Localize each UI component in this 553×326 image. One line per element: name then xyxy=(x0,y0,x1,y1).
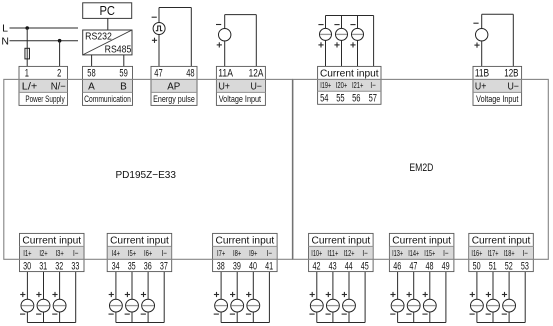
current transformer I16 xyxy=(470,292,484,314)
wire CT I6 connections xyxy=(147,272,149,323)
svg-text:L/+: L/+ xyxy=(22,82,38,93)
wire voltage input B loop xyxy=(482,14,514,66)
wire CT I16 connections xyxy=(476,272,478,323)
svg-text:U+: U+ xyxy=(218,82,230,93)
wire CT I8 connections xyxy=(236,272,238,323)
current transformer I11 xyxy=(326,292,340,314)
svg-text:Current input: Current input xyxy=(472,235,531,247)
wire CT I20 connections xyxy=(341,16,343,67)
svg-text:12B: 12B xyxy=(504,68,518,80)
terminal block Communication (58,59) xyxy=(83,66,133,105)
pulse counter symbol xyxy=(152,17,166,43)
svg-text:37: 37 xyxy=(160,260,168,272)
svg-text:N: N xyxy=(1,35,9,47)
wire CT I15 connections xyxy=(429,272,431,323)
svg-text:Current input: Current input xyxy=(110,235,169,247)
svg-text:I8+: I8+ xyxy=(233,248,241,258)
terminal block Current input (42-45) xyxy=(309,233,374,272)
svg-text:58: 58 xyxy=(87,68,95,80)
current transformer I7 xyxy=(214,292,228,314)
svg-text:I18+: I18+ xyxy=(504,248,515,258)
svg-text:I16+: I16+ xyxy=(471,248,482,258)
wire N line xyxy=(10,40,79,42)
svg-text:PC: PC xyxy=(99,4,115,18)
current transformer I15 xyxy=(422,292,436,314)
terminal block Voltage Input (11A,12A) xyxy=(216,66,265,105)
svg-text:AP: AP xyxy=(167,82,180,93)
svg-text:55: 55 xyxy=(336,93,344,105)
svg-text:I1+: I1+ xyxy=(23,248,31,258)
svg-text:41: 41 xyxy=(265,260,273,272)
svg-text:40: 40 xyxy=(249,260,257,272)
svg-text:I13+: I13+ xyxy=(392,248,403,258)
current transformer I14 xyxy=(406,292,420,314)
wire converter B to terminal 59 xyxy=(123,55,125,67)
wire CT I18 connections xyxy=(508,272,510,323)
svg-text:54: 54 xyxy=(320,93,328,105)
svg-text:I21+: I21+ xyxy=(352,80,364,90)
svg-text:B: B xyxy=(120,82,127,93)
terminal block Current input (34-37) xyxy=(107,233,172,272)
svg-text:I15+: I15+ xyxy=(424,248,435,258)
svg-text:Communication: Communication xyxy=(84,94,131,104)
svg-text:Energy pulse: Energy pulse xyxy=(153,94,195,104)
wire CT I3 connections xyxy=(59,272,61,323)
svg-text:Voltage Input: Voltage Input xyxy=(476,94,519,104)
svg-text:I10+: I10+ xyxy=(311,248,322,258)
svg-text:Current input: Current input xyxy=(392,235,451,247)
current transformer I9 xyxy=(246,292,260,314)
svg-text:49: 49 xyxy=(442,260,450,272)
svg-text:43: 43 xyxy=(329,260,337,272)
svg-text:31: 31 xyxy=(39,260,47,272)
terminal block Power Supply (1,2) xyxy=(19,66,68,105)
svg-text:I6+: I6+ xyxy=(144,248,152,258)
wire CT I9 connections xyxy=(252,272,254,323)
current transformer I1 xyxy=(20,292,34,314)
svg-text:I7+: I7+ xyxy=(217,248,225,258)
svg-text:57: 57 xyxy=(369,93,377,105)
meter case EM2D xyxy=(293,79,548,259)
node L junction xyxy=(25,26,29,30)
current transformer I13 xyxy=(390,292,404,314)
wire CT I2 connections xyxy=(43,272,45,323)
svg-text:1: 1 xyxy=(25,68,29,80)
svg-text:Current input: Current input xyxy=(320,67,379,79)
svg-text:53: 53 xyxy=(521,260,529,272)
wire CT I11 connections xyxy=(332,272,334,323)
svg-text:52: 52 xyxy=(505,260,513,272)
svg-text:I−: I− xyxy=(370,80,376,90)
svg-text:RS232: RS232 xyxy=(85,32,112,43)
wire CT I7 connections xyxy=(220,272,222,323)
svg-text:I14+: I14+ xyxy=(408,248,419,258)
svg-text:L: L xyxy=(2,22,8,34)
terminal block Current input (30-33) xyxy=(20,233,85,272)
wire CT I14 connections xyxy=(413,272,415,323)
svg-text:32: 32 xyxy=(55,260,63,272)
terminal block Current input (46-49) xyxy=(389,233,454,272)
svg-text:I−: I− xyxy=(362,248,368,258)
svg-text:RS485: RS485 xyxy=(105,44,132,55)
svg-text:12A: 12A xyxy=(249,68,264,80)
wire CT I1 connections xyxy=(26,272,28,323)
wire CT I5 connections xyxy=(131,272,133,323)
svg-text:I12+: I12+ xyxy=(344,248,355,258)
wire CT I12 connections xyxy=(348,272,350,323)
svg-text:48: 48 xyxy=(186,68,194,80)
svg-text:I20+: I20+ xyxy=(336,80,348,90)
svg-text:A: A xyxy=(88,82,95,93)
svg-text:N/−: N/− xyxy=(51,82,66,93)
wire fuse to terminal 1 xyxy=(26,59,28,67)
svg-text:11A: 11A xyxy=(218,68,233,80)
node N junction xyxy=(58,39,62,43)
wire PC to converter xyxy=(107,18,109,30)
svg-text:I−: I− xyxy=(73,248,79,258)
svg-text:30: 30 xyxy=(23,260,31,272)
svg-text:59: 59 xyxy=(119,68,127,80)
current transformer I10 xyxy=(309,292,323,314)
svg-text:Power Supply: Power Supply xyxy=(25,94,65,104)
wire CT I10 connections xyxy=(316,272,318,323)
wire CT I13 connections xyxy=(397,272,399,323)
wire L junction to fuse xyxy=(26,28,28,48)
svg-text:I17+: I17+ xyxy=(488,248,499,258)
terminal block Voltage Input (11B,12B) xyxy=(473,66,522,105)
wire L line xyxy=(10,27,79,29)
svg-text:11B: 11B xyxy=(475,68,489,80)
current transformer I4 xyxy=(109,292,123,314)
wire shared case edge xyxy=(292,79,294,259)
converter RS232/RS485 xyxy=(83,30,132,55)
svg-text:U−: U− xyxy=(250,82,262,93)
svg-text:36: 36 xyxy=(144,260,152,272)
voltage source UB xyxy=(473,23,488,48)
current transformer I17 xyxy=(486,292,500,314)
wire converter A to terminal 58 xyxy=(91,55,93,67)
svg-text:U+: U+ xyxy=(475,82,487,93)
svg-text:I−: I− xyxy=(161,248,167,258)
svg-text:44: 44 xyxy=(345,260,353,272)
svg-text:2: 2 xyxy=(57,68,61,80)
terminal block Current input (38-41) xyxy=(213,233,278,272)
terminal block Energy pulse (47,48) xyxy=(151,66,197,105)
svg-text:39: 39 xyxy=(233,260,241,272)
wire CT I4 connections xyxy=(115,272,117,323)
net label N xyxy=(1,35,9,47)
current transformer I12 xyxy=(342,292,356,314)
wire I10-I12 return bus xyxy=(317,272,365,323)
current transformer I19 xyxy=(318,25,331,48)
current transformer I2 xyxy=(36,292,50,314)
current transformer I21 xyxy=(350,25,363,48)
svg-text:47: 47 xyxy=(154,68,162,80)
svg-text:35: 35 xyxy=(128,260,136,272)
wire top CT bus xyxy=(326,16,374,67)
svg-text:38: 38 xyxy=(217,260,225,272)
svg-text:Current input: Current input xyxy=(312,235,371,247)
svg-text:I−: I− xyxy=(267,248,273,258)
svg-text:33: 33 xyxy=(71,260,79,272)
wire I4-I6 return bus xyxy=(116,272,164,323)
current transformer I6 xyxy=(141,292,155,314)
wire I1-I3 return bus xyxy=(27,272,75,323)
svg-text:I3+: I3+ xyxy=(55,248,63,258)
svg-text:I5+: I5+ xyxy=(128,248,136,258)
svg-text:I19+: I19+ xyxy=(320,80,331,90)
svg-text:Voltage Input: Voltage Input xyxy=(219,94,262,104)
current transformer I20 xyxy=(334,25,347,48)
wire I7-I9 return bus xyxy=(221,272,269,323)
svg-text:I−: I− xyxy=(522,248,528,258)
svg-text:PD195Z−E33: PD195Z−E33 xyxy=(115,169,176,181)
svg-text:51: 51 xyxy=(489,260,497,272)
current transformer I18 xyxy=(502,292,516,314)
fuse F1 xyxy=(25,48,30,59)
wire voltage input A loop xyxy=(225,15,257,67)
meter case PD195Z-E33 xyxy=(4,79,293,259)
svg-text:I4+: I4+ xyxy=(112,248,120,258)
terminal block Current input (54-57) xyxy=(318,66,381,104)
svg-text:I9+: I9+ xyxy=(249,248,257,258)
wire CT I17 connections xyxy=(492,272,494,323)
svg-text:EM2D: EM2D xyxy=(409,162,433,174)
svg-text:Current input: Current input xyxy=(216,235,275,247)
svg-text:47: 47 xyxy=(409,260,417,272)
wire CT I21 connections xyxy=(357,16,359,67)
svg-text:42: 42 xyxy=(313,260,321,272)
svg-text:I−: I− xyxy=(443,248,449,258)
current transformer I3 xyxy=(52,292,66,314)
terminal block Current input (50-53) xyxy=(469,233,534,272)
wire N junction to terminal 2 xyxy=(59,41,61,67)
PC box xyxy=(83,3,132,19)
current transformer I8 xyxy=(230,292,244,314)
svg-text:I11+: I11+ xyxy=(327,248,338,258)
current transformer I5 xyxy=(125,292,139,314)
svg-text:I2+: I2+ xyxy=(39,248,47,258)
svg-text:48: 48 xyxy=(426,260,434,272)
svg-text:56: 56 xyxy=(352,93,360,105)
svg-text:Current input: Current input xyxy=(22,235,81,247)
svg-text:46: 46 xyxy=(393,260,401,272)
wire energy pulse loop xyxy=(159,8,191,67)
wire CT I19 connections xyxy=(325,16,327,67)
net label L xyxy=(2,22,8,34)
svg-text:50: 50 xyxy=(473,260,481,272)
wire I13-I15 return bus xyxy=(398,272,446,323)
voltage source UA xyxy=(216,25,231,48)
svg-text:45: 45 xyxy=(361,260,369,272)
wire I16-I18 return bus xyxy=(477,272,525,323)
svg-text:34: 34 xyxy=(112,260,120,272)
svg-text:U−: U− xyxy=(507,82,519,93)
